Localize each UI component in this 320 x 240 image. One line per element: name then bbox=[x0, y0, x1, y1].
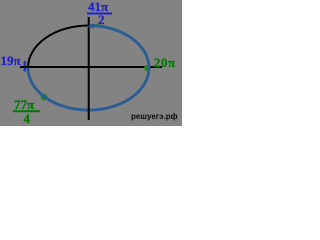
svg-text:20π: 20π bbox=[154, 55, 176, 70]
svg-text:19π: 19π bbox=[1, 53, 21, 68]
blue arrowhead at top vertex (41pi/2 end) bbox=[87, 24, 94, 29]
green dot at right vertex (20pi) bbox=[144, 65, 151, 72]
svg-text:77π: 77π bbox=[14, 97, 34, 112]
svg-text:2: 2 bbox=[98, 12, 105, 27]
svg-text:4: 4 bbox=[24, 111, 31, 126]
fraction bar of 77pi/4 bbox=[13, 110, 40, 112]
y-axis bbox=[88, 17, 90, 120]
black arc (top-left quadrant) bbox=[28, 26, 89, 68]
svg-text:решуегэ.рф: решуегэ.рф bbox=[131, 112, 178, 121]
blue tick at left vertex (19pi mark) bbox=[24, 61, 27, 72]
green dot at 5pi/4 (77pi/4) bbox=[41, 94, 48, 101]
blue arc (from 19pi to 41pi/2, three quarters of ellipse) bbox=[28, 26, 149, 111]
x-axis bbox=[20, 66, 162, 68]
fraction bar of 41pi/2 bbox=[87, 13, 112, 15]
green speck near arrow bbox=[97, 24, 99, 26]
